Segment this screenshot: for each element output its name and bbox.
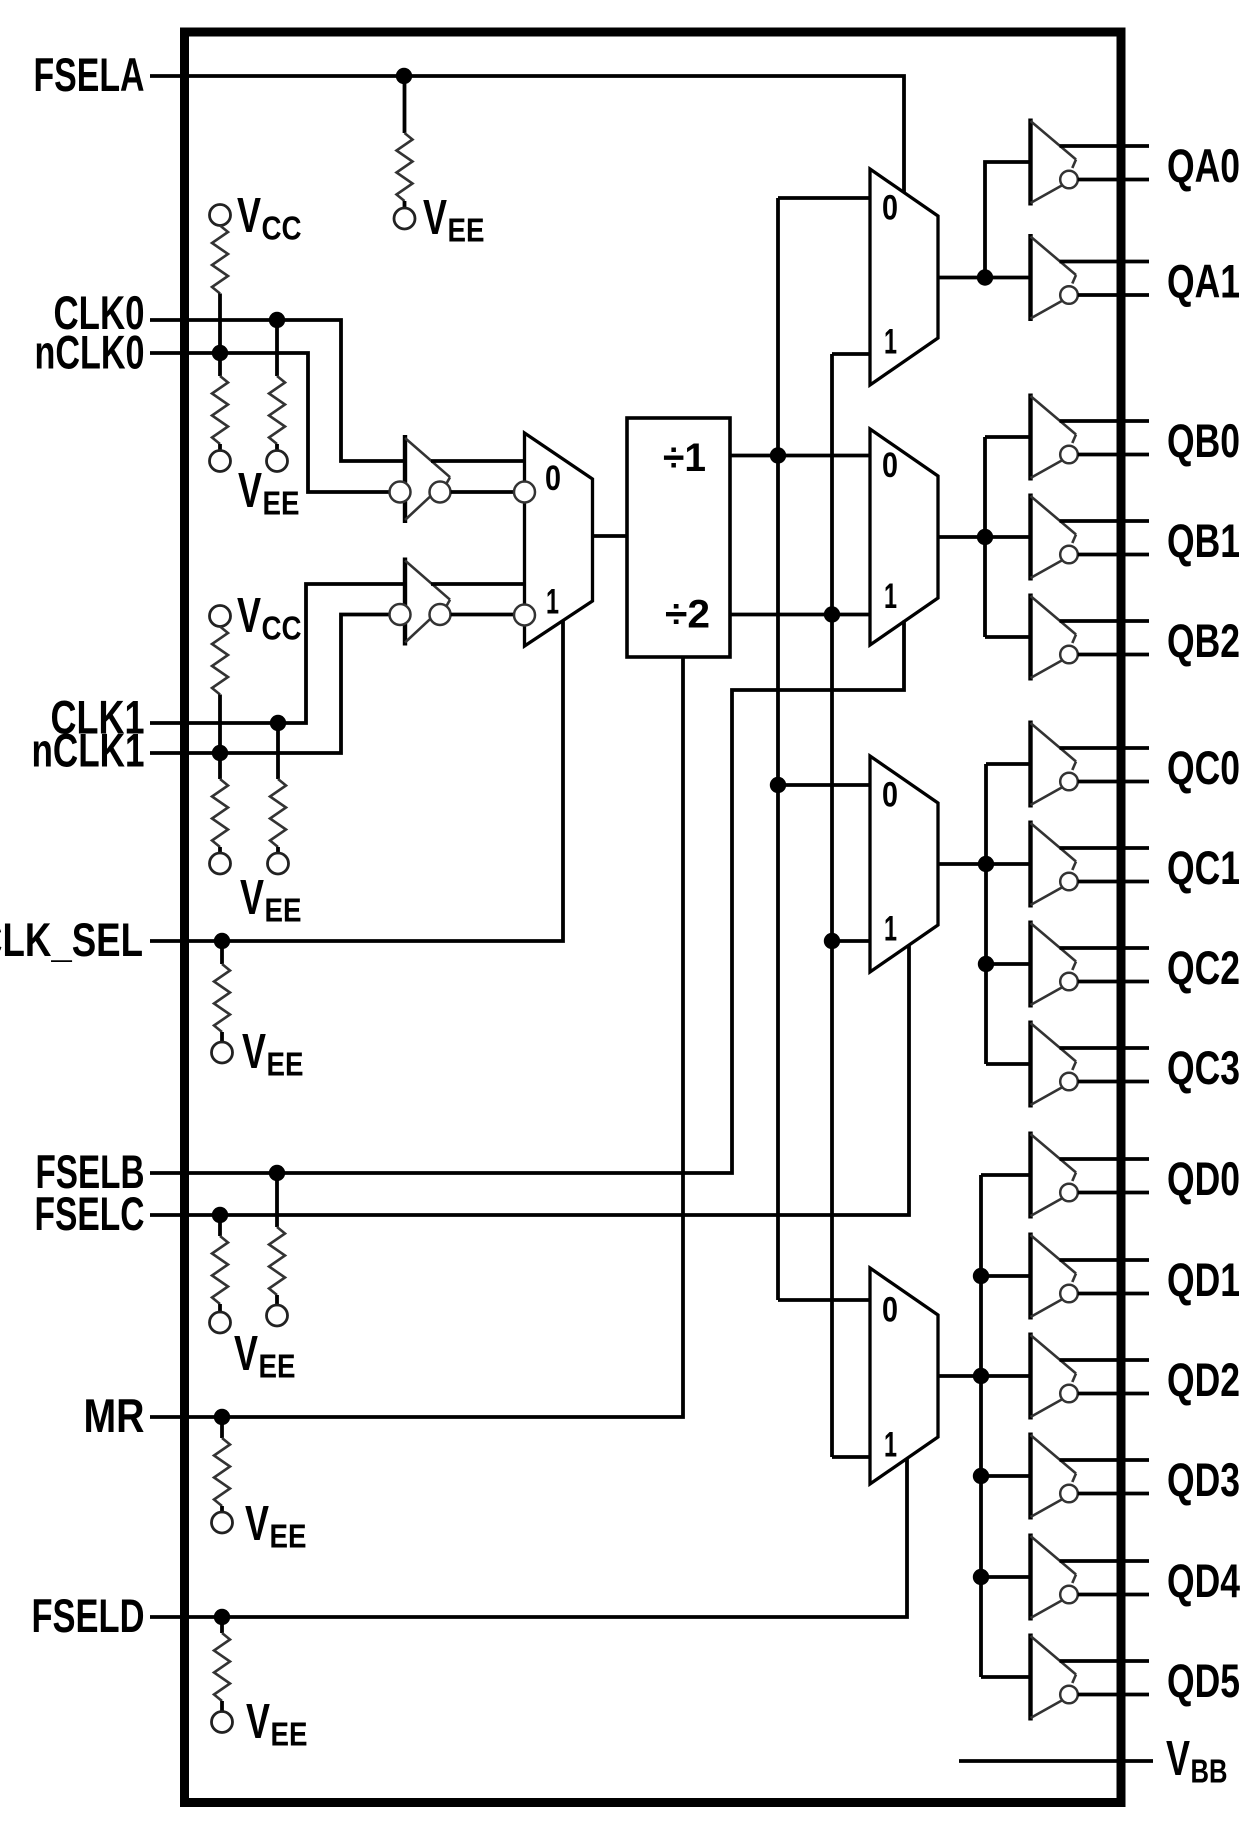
wire to QC3 buffer — [986, 1062, 1031, 1066]
svg-text:QA0: QA0 — [1167, 139, 1240, 192]
svg-text:QD4: QD4 — [1167, 1554, 1240, 1607]
bank C fanout wire — [984, 764, 988, 1064]
divider block (÷1 / ÷2) — [627, 418, 730, 657]
junction mux B output — [977, 529, 993, 545]
output buffer QC3 — [1031, 1021, 1150, 1108]
svg-text:CC: CC — [262, 210, 302, 247]
bank B fanout wire — [983, 437, 987, 637]
svg-text:1: 1 — [884, 323, 897, 362]
output buffer QA1 — [1031, 234, 1150, 321]
mux D output wire — [938, 1374, 1031, 1378]
svg-text:V: V — [238, 464, 262, 518]
bank A frequency mux — [870, 169, 938, 385]
mux A output wire — [938, 276, 1031, 280]
VEE terminal (CLK0 pulldowns) — [210, 451, 300, 522]
VCC terminal (nCLK0 pullup) — [210, 189, 302, 247]
svg-text:QC0: QC0 — [1167, 741, 1240, 794]
svg-text:0: 0 — [882, 446, 898, 485]
CLK1 pulldown resistor — [270, 723, 286, 853]
mux C output wire — [937, 862, 1031, 866]
nCLK1 wire to input buffer U2 bubble — [150, 615, 390, 754]
junction ÷1 output — [770, 447, 786, 463]
output buffer QB1 — [1031, 494, 1150, 581]
FSELA pulldown resistor — [397, 76, 413, 208]
svg-text:V: V — [246, 1695, 270, 1749]
svg-text:QD1: QD1 — [1167, 1253, 1240, 1306]
svg-text:MR: MR — [84, 1389, 145, 1442]
wire to QD0 buffer — [981, 1173, 1031, 1177]
CLK1 wire to input buffer U2 — [150, 584, 407, 723]
input buffer U1 (CLK0/nCLK0 receiver) — [390, 435, 525, 523]
svg-text:1: 1 — [884, 910, 897, 949]
svg-text:QD2: QD2 — [1167, 1353, 1240, 1406]
nCLK0 wire to input buffer U1 bubble — [150, 353, 390, 492]
svg-text:nCLK0: nCLK0 — [35, 326, 145, 379]
svg-text:0: 0 — [545, 459, 561, 498]
output buffer QD3 — [1031, 1433, 1150, 1520]
output buffer QD1 — [1031, 1233, 1150, 1320]
mux B output wire — [938, 535, 1031, 539]
junction MR/pulldown — [214, 1409, 230, 1425]
VEE terminal (FSELB/FSELC pulldowns) — [210, 1305, 296, 1385]
junction CLK0/pulldown — [269, 312, 285, 328]
svg-text:V: V — [1166, 1732, 1190, 1786]
bank C frequency mux — [870, 756, 938, 972]
VCC terminal (nCLK1 pullup) — [210, 589, 302, 647]
svg-text:0: 0 — [882, 1291, 898, 1330]
wire to QD4 buffer — [981, 1575, 1031, 1579]
svg-text:CC: CC — [262, 610, 302, 647]
svg-text:EE: EE — [271, 1716, 308, 1753]
output buffer QC2 — [1031, 921, 1150, 1008]
wire ÷1 to mux A input 0 — [778, 196, 870, 200]
svg-text:EE: EE — [263, 485, 300, 522]
output buffer QD2 — [1031, 1333, 1150, 1420]
junction FSELC/pulldown — [212, 1207, 228, 1223]
svg-text:V: V — [240, 871, 264, 925]
output buffer QC1 — [1031, 821, 1150, 908]
nCLK1 pullup resistor — [212, 627, 228, 754]
svg-text:FSELA: FSELA — [34, 48, 145, 101]
svg-text:FSELC: FSELC — [35, 1187, 145, 1240]
VBB pin label — [1166, 1732, 1228, 1790]
÷2 output wire — [730, 613, 870, 617]
clock select mux U3 — [514, 433, 593, 646]
bank A fanout wire — [985, 162, 1031, 278]
output buffer QB0 — [1031, 394, 1150, 481]
junction mux A output — [977, 269, 993, 285]
bank D frequency mux — [870, 1268, 938, 1484]
wire ÷1 to mux C input 0 — [778, 783, 870, 787]
wire to QC0 buffer — [986, 762, 1031, 766]
VEE terminal (FSELA pulldown) — [394, 191, 485, 249]
VEE terminal (FSELD pulldown) — [212, 1695, 308, 1753]
svg-text:nCLK1: nCLK1 — [32, 724, 145, 777]
junction CLK1/pulldown — [270, 715, 286, 731]
wire ÷2 to mux D input 1 — [832, 1455, 870, 1459]
svg-text:QC3: QC3 — [1167, 1041, 1240, 1094]
svg-text:QD0: QD0 — [1167, 1152, 1240, 1205]
VBB output wire — [959, 1759, 1153, 1763]
CLK0 pulldown resistor — [269, 320, 285, 451]
IC block boundary — [185, 32, 1122, 1803]
÷1 output wire — [730, 454, 870, 458]
FSELB wire to mux B select — [150, 621, 904, 1174]
svg-text:0: 0 — [882, 189, 898, 228]
wire ÷2 to mux A input 1 — [832, 352, 870, 356]
svg-text:QA1: QA1 — [1167, 255, 1240, 308]
÷1 net vertical bus — [776, 198, 780, 1300]
svg-text:V: V — [245, 1497, 269, 1551]
junction mux C output — [978, 856, 994, 872]
wire ÷1 to mux D input 0 — [778, 1298, 870, 1302]
svg-text:QB1: QB1 — [1167, 514, 1240, 567]
junction CLK_SEL/pulldown — [214, 933, 230, 949]
svg-text:1: 1 — [884, 1426, 897, 1465]
nCLK0 pulldown resistor — [212, 353, 228, 451]
svg-text:V: V — [242, 1025, 266, 1079]
input buffer U2 (CLK1/nCLK1 receiver) — [390, 558, 525, 646]
junction QD4 tap — [973, 1569, 989, 1585]
junction ÷2 output — [824, 606, 840, 622]
svg-text:QB0: QB0 — [1167, 414, 1240, 467]
svg-text:1: 1 — [884, 577, 897, 616]
VEE terminal (MR pulldown) — [212, 1497, 307, 1555]
svg-text:EE: EE — [270, 1518, 307, 1555]
output buffer QD4 — [1031, 1534, 1150, 1621]
VEE terminal (CLK1 pulldowns) — [210, 853, 302, 929]
svg-text:BB: BB — [1191, 1753, 1228, 1790]
output buffer QD5 — [1031, 1634, 1150, 1721]
junction QD1 tap — [973, 1268, 989, 1284]
junction mux D output — [973, 1368, 989, 1384]
wire to QB2 buffer — [985, 635, 1031, 639]
svg-text:FSELD: FSELD — [32, 1589, 145, 1642]
wire to QD3 buffer — [981, 1474, 1031, 1478]
junction FSELD/pulldown — [214, 1609, 230, 1625]
MR pulldown resistor — [214, 1417, 230, 1512]
svg-text:V: V — [237, 589, 261, 643]
junction nCLK1/pullup — [212, 745, 228, 761]
÷2 net vertical bus — [830, 354, 834, 1457]
nCLK1 pulldown resistor — [212, 753, 228, 853]
svg-text:1: 1 — [546, 583, 559, 622]
CLK0 wire to input buffer U1 — [150, 320, 407, 461]
svg-text:QB2: QB2 — [1167, 614, 1240, 667]
svg-text:CLK_SEL: CLK_SEL — [0, 913, 143, 966]
CLK_SEL pulldown resistor — [214, 941, 230, 1042]
junction FSELB/pulldown — [269, 1165, 285, 1181]
wire to QD1 buffer — [981, 1274, 1031, 1278]
FSELC pulldown resistor — [212, 1215, 228, 1312]
junction QC2 tap — [978, 956, 994, 972]
VEE terminal (CLK_SEL pulldown) — [212, 1025, 304, 1083]
nCLK0 pullup resistor — [212, 226, 228, 354]
svg-text:QC2: QC2 — [1167, 941, 1240, 994]
CLK_SEL wire to mux U3 select — [150, 621, 563, 941]
output buffer QA0 — [1031, 119, 1150, 206]
output buffer QD0 — [1031, 1132, 1150, 1219]
FSELD wire to mux D select — [150, 1458, 907, 1617]
svg-text:QD5: QD5 — [1167, 1654, 1240, 1707]
output buffer QB2 — [1031, 594, 1150, 681]
bank B frequency mux — [870, 429, 938, 645]
wire ÷2 to mux C input 1 — [832, 939, 870, 943]
svg-text:QC1: QC1 — [1167, 841, 1240, 894]
svg-text:V: V — [423, 191, 447, 245]
svg-text:÷2: ÷2 — [665, 593, 710, 637]
bank D fanout wire — [979, 1175, 983, 1677]
wire to QC2 buffer — [986, 962, 1031, 966]
junction FSELA/pulldown — [396, 68, 412, 84]
svg-text:EE: EE — [265, 892, 302, 929]
MR wire to divider reset — [150, 657, 683, 1417]
svg-text:V: V — [237, 189, 261, 243]
wire to QB0 buffer — [985, 435, 1031, 439]
junction nCLK0/pullup — [212, 345, 228, 361]
svg-text:V: V — [234, 1327, 258, 1381]
svg-text:÷1: ÷1 — [663, 436, 706, 480]
FSELA wire to mux A select — [150, 76, 904, 193]
FSELC wire to mux C select — [150, 945, 909, 1215]
junction ÷1/mux C — [770, 777, 786, 793]
FSELB pulldown resistor — [269, 1173, 285, 1305]
wire mux U3 output to divider — [593, 534, 628, 538]
svg-text:EE: EE — [448, 212, 485, 249]
junction ÷2/mux C — [824, 933, 840, 949]
output buffer QC0 — [1031, 721, 1150, 808]
svg-text:EE: EE — [259, 1348, 296, 1385]
wire to QD5 buffer — [981, 1675, 1031, 1679]
junction QD3 tap — [973, 1468, 989, 1484]
FSELD pulldown resistor — [214, 1617, 230, 1712]
svg-text:EE: EE — [267, 1046, 304, 1083]
svg-text:0: 0 — [882, 776, 898, 815]
svg-text:QD3: QD3 — [1167, 1453, 1240, 1506]
